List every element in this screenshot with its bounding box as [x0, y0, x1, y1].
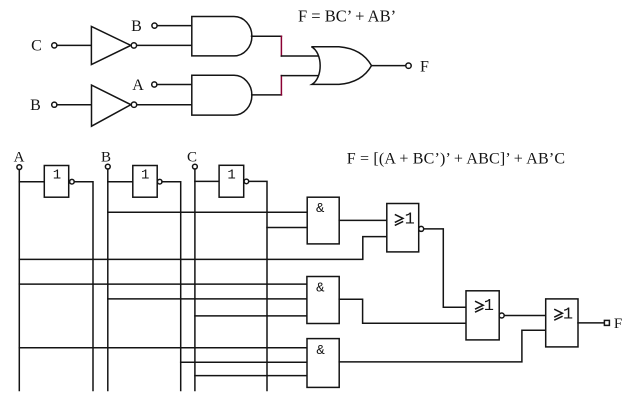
- AND gate U9 (AB'C) IEC box: [307, 339, 339, 388]
- formula F = BC' + AB': [298, 6, 396, 25]
- wire A vertical rail: [18, 170, 20, 391]
- wire B to AND gate U6: [108, 298, 307, 300]
- inverter box 2 (B): [133, 166, 157, 198]
- wire AND1 output: [252, 35, 282, 37]
- wire B to inverter: [57, 104, 92, 106]
- AND gate U4 (BC') IEC box: [307, 197, 339, 244]
- wire OR output to F: [372, 65, 406, 67]
- svg-text:F = BC’ + AB’: F = BC’ + AB’: [298, 6, 396, 25]
- wire B': [162, 182, 181, 391]
- wire U4 output to OR U5: [339, 219, 387, 221]
- svg-text:1: 1: [405, 210, 415, 229]
- svg-text:A: A: [14, 149, 25, 165]
- node C (input label, bottom circuit): [187, 149, 197, 165]
- terminal F (bottom): [604, 320, 609, 325]
- svg-text:C: C: [31, 38, 42, 55]
- node C (input label, top circuit): [31, 38, 42, 55]
- terminal A: [152, 82, 157, 87]
- AND gate 1 (BC'): [192, 17, 252, 56]
- wire B into inverter 2: [108, 181, 133, 183]
- OR gate (top circuit): [311, 47, 371, 85]
- wire B to AND1: [157, 25, 192, 27]
- node B (input label, lower inverter): [30, 97, 41, 114]
- inverter 2 output bubble: [157, 179, 162, 184]
- terminal C (bottom circuit): [193, 164, 198, 169]
- svg-text:B: B: [131, 18, 142, 35]
- formula F = [(A + BC')' + ABC]' + AB'C: [347, 151, 565, 168]
- node B (input label, bottom circuit): [101, 149, 111, 165]
- wire U5 output to OR U7: [424, 229, 466, 307]
- wire A to AND gate U9: [19, 347, 307, 349]
- OR gate U8 (final) IEC box: [546, 299, 578, 347]
- wire into OR bottom input: [281, 75, 319, 77]
- svg-text:&: &: [316, 280, 325, 296]
- terminal F (top): [406, 63, 411, 68]
- wire into OR top input: [281, 55, 319, 57]
- svg-text:1: 1: [141, 167, 149, 183]
- wire B' to AND gate U9: [181, 361, 307, 363]
- inverter box 3 (C): [219, 165, 244, 197]
- inverter (B) triangle: [92, 85, 131, 126]
- AND gate 2 (AB'): [192, 75, 252, 115]
- node F label (top circuit): [420, 59, 429, 76]
- svg-text:B: B: [30, 97, 41, 114]
- wire C into inverter 3: [195, 180, 219, 182]
- wire AND2 output: [252, 94, 282, 96]
- wire C vertical rail: [194, 169, 196, 390]
- wire C' to AND gate U4: [267, 227, 307, 229]
- svg-text:F: F: [420, 59, 429, 76]
- wire C to AND gate U6: [195, 315, 307, 317]
- wire A': [74, 182, 93, 391]
- wire A to AND gate U6: [19, 283, 307, 285]
- wire U9 output to OR U8: [339, 330, 546, 362]
- svg-text:&: &: [316, 343, 325, 359]
- AND gate U6 (ABC) IEC box: [307, 277, 339, 324]
- svg-text:F = [(A + BC’)’ + ABC]’ + AB’C: F = [(A + BC’)’ + ABC]’ + AB’C: [347, 151, 565, 168]
- node A (input label, bottom circuit): [14, 149, 25, 165]
- wire maroon vertical (AND2 to OR): [280, 76, 282, 95]
- svg-text:A: A: [132, 77, 144, 94]
- inverter (B) bubble: [131, 102, 136, 107]
- wire C to AND gate U9: [195, 375, 307, 377]
- wire A into inverter 1: [19, 181, 44, 183]
- svg-text:&: &: [316, 201, 325, 217]
- svg-text:1: 1: [227, 167, 235, 183]
- inverter 1 output bubble: [70, 179, 75, 184]
- inverter 3 output bubble: [244, 179, 249, 184]
- svg-text:B: B: [101, 149, 111, 165]
- inverter (C) bubble: [131, 43, 136, 48]
- OR gate U5 (A + BC') IEC box: [387, 204, 419, 252]
- wire A to OR U5: [19, 237, 387, 260]
- terminal B (bottom): [52, 102, 57, 107]
- OR gate U7 IEC box: [466, 291, 499, 340]
- terminal B (top): [152, 23, 157, 28]
- wire maroon vertical (AND1 to OR): [280, 36, 282, 56]
- wire B' to AND2: [137, 104, 192, 106]
- wire U8 output to F: [578, 322, 604, 324]
- wire A to AND2: [157, 84, 192, 86]
- wire B vertical rail: [107, 169, 109, 390]
- wire C to inverter: [57, 44, 91, 46]
- wire U6 output to OR U7: [339, 299, 466, 323]
- terminal A (bottom circuit): [17, 165, 22, 170]
- terminal B (bottom circuit): [105, 164, 110, 169]
- inverter (C) triangle: [91, 26, 130, 64]
- svg-text:F: F: [614, 316, 622, 332]
- svg-text:1: 1: [53, 167, 61, 183]
- wire C' to AND1: [137, 44, 192, 46]
- node A (AND2 input label): [132, 77, 144, 94]
- node B (top AND input label): [131, 18, 142, 35]
- U7 output bubble: [499, 313, 504, 318]
- svg-text:1: 1: [563, 305, 573, 324]
- wire C': [249, 181, 267, 390]
- svg-text:C: C: [187, 149, 197, 165]
- node F label (bottom circuit): [614, 316, 622, 332]
- inverter box 1 (A): [44, 166, 68, 198]
- U5 output bubble: [419, 226, 424, 231]
- terminal C: [52, 43, 57, 48]
- wire B to AND gate U4: [108, 211, 307, 213]
- wire U7 output to OR U8: [504, 315, 545, 317]
- svg-text:1: 1: [484, 297, 494, 316]
